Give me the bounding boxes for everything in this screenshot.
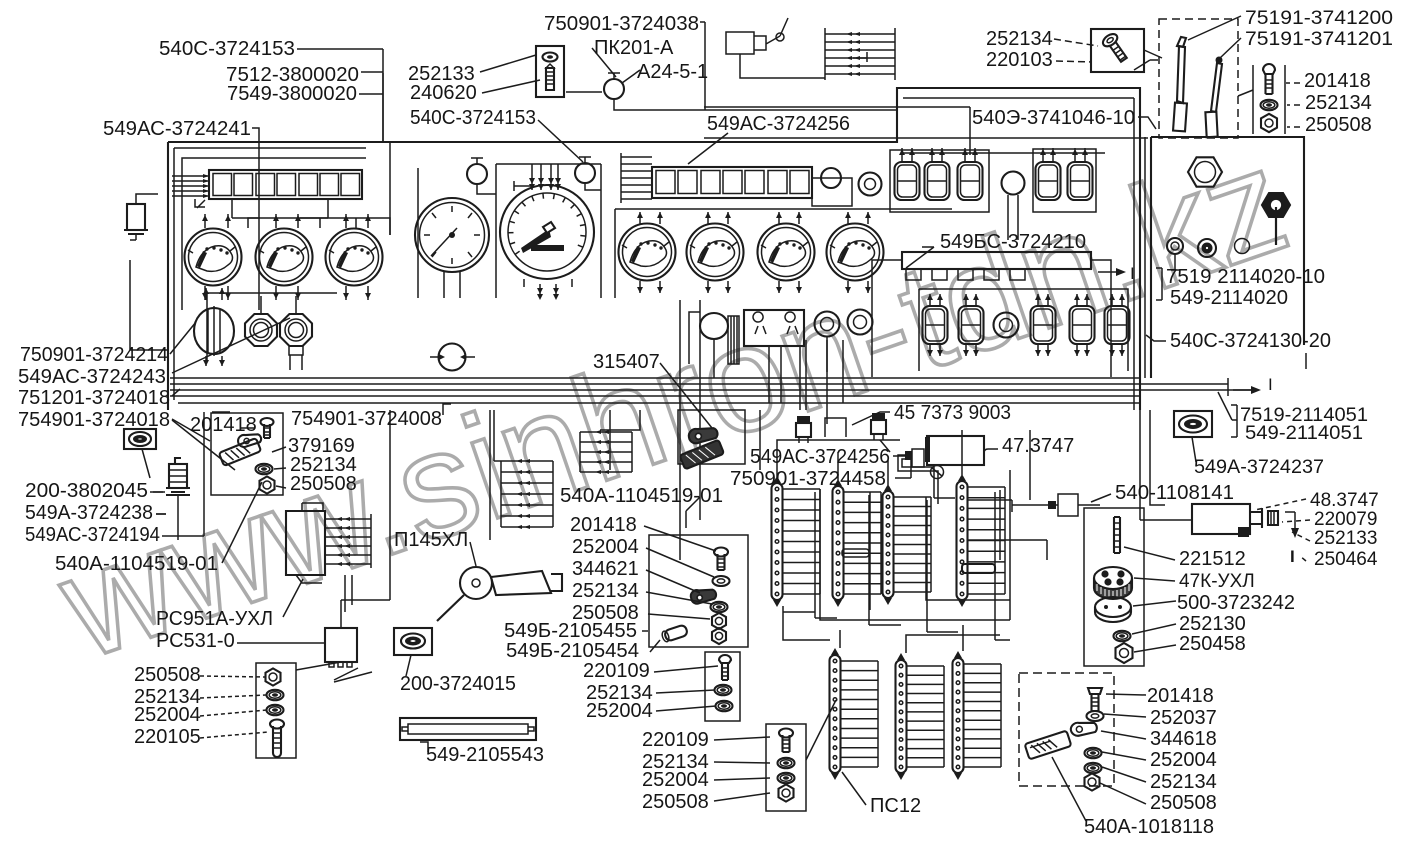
svg-text:751201-3724018: 751201-3724018 [18,387,170,409]
internal wiring verticals [259,73,418,310]
svg-text:201418: 201418 [1304,70,1371,92]
leaders 549AC-3724256 / 750901-3724458 [893,456,911,478]
terminal strips upper row [772,476,821,607]
svg-text:549АС-3724194: 549АС-3724194 [25,524,160,546]
svg-text:315407: 315407 [593,351,660,373]
top switch part [726,18,788,54]
terminal strips lower row [830,648,879,780]
svg-text:549АС-3724256: 549АС-3724256 [707,113,850,135]
switch group 1 (3 toggle switches) [890,150,989,212]
clamp 344618 [1069,717,1098,740]
arrow I inside panel [1098,271,1116,273]
svg-text:250508: 250508 [290,473,357,495]
svg-text:200-3802045: 200-3802045 [25,480,148,502]
П145ХЛ switch [437,567,562,621]
toggle switch side view [1262,193,1290,245]
lever 2 [1211,63,1222,112]
svg-text:540С-3724153: 540С-3724153 [410,107,536,129]
svg-text:344618: 344618 [1150,728,1217,750]
svg-text:549АС-3724256: 549АС-3724256 [750,446,890,468]
svg-text:540А-1018118: 540А-1018118 [1084,816,1214,838]
svg-text:А24-5-1: А24-5-1 [637,61,708,83]
box around 315407 clamps [678,410,745,464]
leaders box D [642,526,716,652]
svg-text:201418: 201418 [570,514,637,536]
svg-text:549-2114051: 549-2114051 [1245,423,1363,444]
leaders to levers [1134,60,1158,70]
ПК201-А circle [604,79,624,99]
leaders 252134/220103 top right [1054,39,1098,62]
wire comb into left strip [172,176,209,196]
svg-text:540А-1104519-01: 540А-1104519-01 [55,553,218,575]
svg-text:250508: 250508 [134,664,201,686]
wire connector 540-1108141 [1012,504,1100,506]
wires right of strips to relays [967,500,1047,560]
svg-text:240620: 240620 [410,82,477,104]
leader 540C-3724153 to lamp [538,120,583,162]
svg-text:250458: 250458 [1179,633,1246,655]
two small relays above strips [796,423,811,437]
svg-text:250464: 250464 [1314,549,1378,570]
parts box J (540A-1018118 group) [1019,673,1114,786]
lamp circle between switch groups [1002,172,1025,195]
horn ring [859,173,882,196]
switch feed line [903,152,1105,154]
left outside component (fuse) [127,204,145,230]
svg-text:549Б-2105455: 549Б-2105455 [504,620,637,642]
leader 549AC-3724241 [252,128,259,139]
svg-text:48.3747: 48.3747 [1310,490,1379,511]
node I tick [1305,353,1307,369]
parts box B (201418/379169/252134/250508) [211,413,283,495]
right top connector strip [652,167,812,198]
keyhole switch plate [744,310,804,346]
speedometer [500,185,594,279]
small relay circle [439,344,466,371]
svg-text:I: I [1268,375,1273,394]
500-3723242 disc [1095,597,1131,622]
bracket 7519-2114020 [1156,268,1162,300]
svg-text:549Б-2105454: 549Б-2105454 [506,640,639,662]
leaders 252133/240620 [480,55,540,93]
left label leaders [170,318,290,441]
svg-text:7549-3800020: 7549-3800020 [227,83,357,105]
svg-text:500-3723242: 500-3723242 [1177,592,1295,614]
lamp circle left of speedometer [467,164,487,184]
svg-text:252004: 252004 [134,704,201,726]
left lamp connector strip [209,170,362,199]
svg-text:549АС-3724241: 549АС-3724241 [103,118,251,140]
leader from lever box to screw box [1144,50,1162,58]
parts box F (bottom middle) [766,724,806,811]
wires lower section mesh [777,430,962,485]
svg-text:540-1108141: 540-1108141 [1115,482,1234,504]
svg-text:252004: 252004 [642,769,709,791]
bracket 7519-2114051 [1218,392,1237,437]
comb into right strip [621,157,652,199]
svg-text:549А-3724237: 549А-3724237 [1194,457,1324,478]
svg-text:252134: 252134 [986,28,1053,50]
svg-text:252130: 252130 [1179,613,1246,635]
svg-text:200-3724015: 200-3724015 [400,673,516,695]
parts box I (221512 / 47K-UHL / 500-3723242 / 252130 / 250458) [1084,508,1144,666]
relay 48.3747 [1192,504,1250,534]
parts box E [705,652,740,721]
svg-text:252037: 252037 [1150,707,1217,729]
svg-text:252004: 252004 [1150,749,1217,771]
right 4 small gauges box [615,209,952,298]
svg-text:201418: 201418 [190,414,257,436]
svg-text:7519 2114020-10: 7519 2114020-10 [1166,266,1325,288]
svg-text:549БС-3724210: 549БС-3724210 [940,231,1086,253]
bottom switch row box [919,289,1128,371]
leaders box J [1100,694,1146,804]
grommet 200-3724015 [394,628,432,655]
svg-text:250508: 250508 [1150,792,1217,814]
svg-text:252134: 252134 [572,580,639,602]
grommet 549A-3724237 [1174,411,1212,437]
leader down from bus to 48.3747 [1140,410,1192,520]
svg-text:750901-3724458: 750901-3724458 [730,468,886,490]
svg-text:РС951А-УХЛ: РС951А-УХЛ [156,608,273,630]
svg-text:47К-УХЛ: 47К-УХЛ [1179,571,1255,592]
stalk levers dashed box (H) [1159,19,1238,138]
grommet left [124,429,156,449]
relay PC531-0 [325,628,357,662]
clamp plates [219,438,261,466]
svg-text:252004: 252004 [572,536,639,558]
svg-text:220105: 220105 [134,726,201,748]
leader PS12 [806,700,866,805]
svg-text:540С-3724130-20: 540С-3724130-20 [1170,330,1331,352]
leader 540A-1104519-01 mid [686,497,700,528]
leaders box B [241,428,286,488]
leader 7512/7549 bracket [297,49,383,142]
fuse 200-3802045 [166,458,190,495]
svg-text:252004: 252004 [586,700,653,722]
svg-text:220109: 220109 [642,729,709,751]
svg-text:750901-3724038: 750901-3724038 [544,13,699,35]
svg-text:47.3747: 47.3747 [1002,435,1074,457]
gauge 3 [326,229,383,286]
top right comb [825,28,895,80]
svg-text:220079: 220079 [1314,509,1377,530]
wire bundle combs lower middle [501,459,553,529]
leader 45 7373 9003 [852,412,890,425]
leader 540E-3741046-10 [1138,117,1156,129]
leader 549AC-3724256 top [688,133,728,164]
small indicator parts [1167,238,1183,254]
svg-text:344621: 344621 [572,558,639,580]
svg-text:754901-3724008: 754901-3724008 [291,408,442,430]
temp gauge [687,224,744,281]
bolt column right (201418/252134/250508) [1253,65,1285,134]
big hex nut [1188,157,1222,186]
parts box C (250508/252134/252004/220105) [256,663,296,758]
svg-text:540Э-3741046-10: 540Э-3741046-10 [972,107,1135,129]
svg-text:220103: 220103 [986,49,1053,71]
gauge 2 [256,229,313,286]
svg-text:75191-3741200: 75191-3741200 [1245,8,1393,29]
leader 549BS-3724210 [906,247,934,268]
jumper bars [842,549,869,557]
leaders box I [1124,547,1176,652]
lamp circle above speedometer [575,163,595,183]
svg-text:252134: 252134 [1150,771,1217,793]
lamp flasher cluster bottom-left [207,293,337,362]
svg-text:252134: 252134 [1305,92,1372,114]
oil gauge [758,224,815,281]
svg-text:П145ХЛ: П145ХЛ [394,529,468,551]
relay PC951A-UHL [286,511,325,575]
leader 540C-3724130-20 [1146,335,1166,341]
leader PC951A [283,579,303,617]
volt gauge [827,224,884,281]
svg-text:I: I [1290,547,1295,566]
socket rings [815,312,840,337]
svg-text:250508: 250508 [1305,114,1372,136]
buzzer bracket [812,178,852,206]
gauge row connective wires [248,218,390,235]
svg-text:750901-3724214: 750901-3724214 [20,344,168,366]
clamp pieces 315407 [686,421,719,449]
screw parts box top right (G) [1091,29,1144,72]
svg-text:549-2105543: 549-2105543 [426,744,544,766]
strap 549-2105543 [400,718,536,740]
47K-UHL knurled cap [1094,567,1132,599]
pressure gauge [415,198,489,298]
svg-text:754901-3724018: 754901-3724018 [18,409,170,431]
speedo drive long rect 549BS-3724210 [902,252,1091,269]
lever 1 [1177,46,1185,103]
fuel gauge [619,224,676,281]
svg-text:221512: 221512 [1179,548,1246,570]
leader PK201 [566,48,640,92]
svg-text:45 7373 9003: 45 7373 9003 [894,402,1011,424]
main panel outer frame [168,88,1140,410]
svg-text:220109: 220109 [583,660,650,682]
wires near PC951 [345,410,390,612]
parts box D [649,535,748,647]
right panel frame [1151,137,1304,378]
svg-text:540С-3724153: 540С-3724153 [159,38,295,60]
svg-text:250508: 250508 [642,791,709,813]
ammeter gauge 1 [185,229,242,286]
switch group 2 (2 switches) [1033,149,1096,212]
svg-text:549А-3724238: 549А-3724238 [25,502,153,524]
oval lamp [700,313,728,339]
plate piece [1025,731,1072,760]
svg-text:I: I [1130,264,1135,283]
svg-text:201418: 201418 [1147,685,1214,707]
svg-text:252133: 252133 [1314,528,1377,549]
svg-text:РС531-0: РС531-0 [156,630,235,652]
parts box 252133/240620 [536,46,564,97]
speedometer box [496,164,601,298]
bottom switches [923,306,948,344]
wiring top: pk201 to panel [614,22,897,110]
bus lines below panel [170,378,1251,403]
svg-text:549-2114020: 549-2114020 [1170,287,1288,309]
svg-text:ПК201-А: ПК201-А [594,37,674,59]
relay 47.3747 [927,436,984,465]
arrow I right of bus [1228,378,1251,396]
svg-text:75191-3741201: 75191-3741201 [1245,29,1393,50]
svg-text:540А-1104519-01: 540А-1104519-01 [560,485,723,507]
left sub-box around 3 gauges [182,158,366,310]
754901-3724008 underline hook [212,404,451,415]
svg-text:ПС12: ПС12 [870,795,921,817]
svg-text:549АС-3724243: 549АС-3724243 [18,366,166,388]
